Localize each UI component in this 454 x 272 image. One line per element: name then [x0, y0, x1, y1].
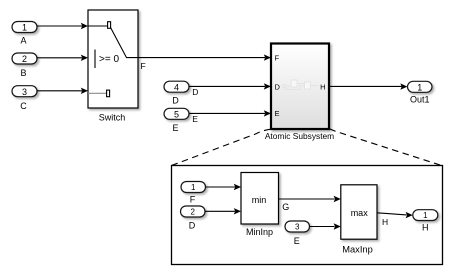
svg-text:E: E	[172, 123, 178, 133]
svg-text:E: E	[275, 109, 280, 118]
wire D to Atomic Subsystem port D	[189, 83, 271, 89]
Atomic Subsystem block body	[271, 44, 329, 130]
svg-text:F: F	[141, 61, 146, 71]
svg-text:>= 0: >= 0	[99, 54, 119, 65]
Switch bottom input stub (gray) and port marker	[88, 90, 110, 97]
svg-text:1: 1	[423, 211, 428, 220]
signal label G	[282, 202, 289, 212]
svg-text:D: D	[192, 87, 198, 97]
svg-text:1: 1	[22, 22, 27, 32]
Atomic Subsystem port label D	[275, 82, 281, 91]
svg-text:MinInp: MinInp	[246, 227, 273, 237]
inport block 2 (B)	[12, 53, 37, 78]
svg-text:D: D	[275, 82, 281, 91]
svg-text:4: 4	[174, 82, 179, 92]
Atomic Subsystem port label F	[275, 53, 280, 62]
wire Atomic Subsystem H to Out1	[329, 83, 408, 89]
Atomic Subsystem faint content icon	[282, 80, 318, 90]
svg-text:F: F	[275, 53, 280, 62]
inport block 5 (E)	[164, 108, 189, 133]
Switch threshold bar	[94, 50, 96, 69]
Atomic Subsystem port label E	[275, 109, 280, 118]
svg-text:H: H	[422, 223, 429, 233]
MaxInp block body	[341, 185, 377, 239]
inner outport block 1 (H)	[413, 210, 438, 233]
svg-text:F: F	[190, 194, 196, 204]
wire A to Switch input 1	[37, 23, 88, 29]
svg-text:Out1: Out1	[410, 94, 430, 104]
inport block 4 (D)	[164, 81, 189, 105]
callout dashed line left	[172, 129, 271, 165]
svg-text:H: H	[320, 82, 325, 91]
callout dashed line right	[330, 129, 443, 166]
inner wire F to MinInp	[206, 184, 242, 190]
svg-text:3: 3	[22, 87, 27, 97]
Switch selector diagonal to output	[111, 28, 138, 58]
svg-text:E: E	[192, 114, 198, 124]
inner wire E to MaxInp	[310, 223, 341, 229]
inner wire D to MinInp	[205, 208, 241, 214]
Switch top input stub and port marker	[88, 22, 111, 29]
signal label H (inner)	[382, 217, 388, 227]
inport block 1 (A)	[12, 22, 37, 46]
svg-text:Switch: Switch	[99, 112, 126, 122]
svg-text:1: 1	[191, 183, 196, 192]
Switch block body	[88, 10, 138, 108]
svg-text:C: C	[20, 101, 27, 111]
svg-text:A: A	[20, 35, 26, 45]
wire Switch to Atomic Subsystem port F	[138, 54, 271, 60]
Atomic Subsystem port label H	[320, 82, 325, 91]
signal label D	[192, 87, 198, 97]
wire B to Switch control input	[37, 55, 88, 61]
inner inport block 3 (E)	[285, 221, 310, 246]
MaxInp block label	[342, 244, 373, 254]
svg-text:E: E	[294, 236, 300, 246]
svg-text:1: 1	[417, 82, 422, 92]
svg-text:3: 3	[295, 222, 300, 231]
inner wire G MinInp to MaxInp	[279, 196, 341, 202]
svg-text:B: B	[20, 68, 26, 78]
MinInp block body	[241, 173, 279, 225]
outport block Out1	[408, 81, 433, 104]
Atomic Subsystem block label	[265, 131, 334, 141]
svg-text:D: D	[189, 220, 196, 230]
inport block 3 (C)	[12, 86, 37, 111]
subsystem contents frame box	[172, 166, 443, 265]
Switch block label	[99, 112, 126, 122]
svg-text:max: max	[351, 208, 369, 218]
signal label E	[192, 114, 198, 124]
Switch threshold text >= 0	[99, 54, 119, 65]
svg-text:D: D	[172, 96, 179, 106]
inner inport block 2 (D)	[181, 206, 206, 230]
svg-text:5: 5	[174, 109, 179, 119]
wire E to Atomic Subsystem port E	[189, 110, 271, 116]
svg-text:2: 2	[190, 207, 195, 216]
wire C to Switch input 3	[37, 88, 88, 94]
svg-text:Atomic Subsystem: Atomic Subsystem	[265, 131, 334, 141]
signal label F	[141, 61, 146, 71]
svg-text:H: H	[382, 217, 388, 227]
svg-text:2: 2	[22, 54, 27, 64]
inner wire H MaxInp to outport	[377, 212, 413, 218]
MinInp block label	[246, 227, 273, 237]
svg-text:G: G	[282, 202, 289, 212]
svg-text:MaxInp: MaxInp	[342, 244, 373, 254]
inner inport block 1 (F)	[181, 182, 206, 205]
svg-text:min: min	[252, 195, 267, 205]
